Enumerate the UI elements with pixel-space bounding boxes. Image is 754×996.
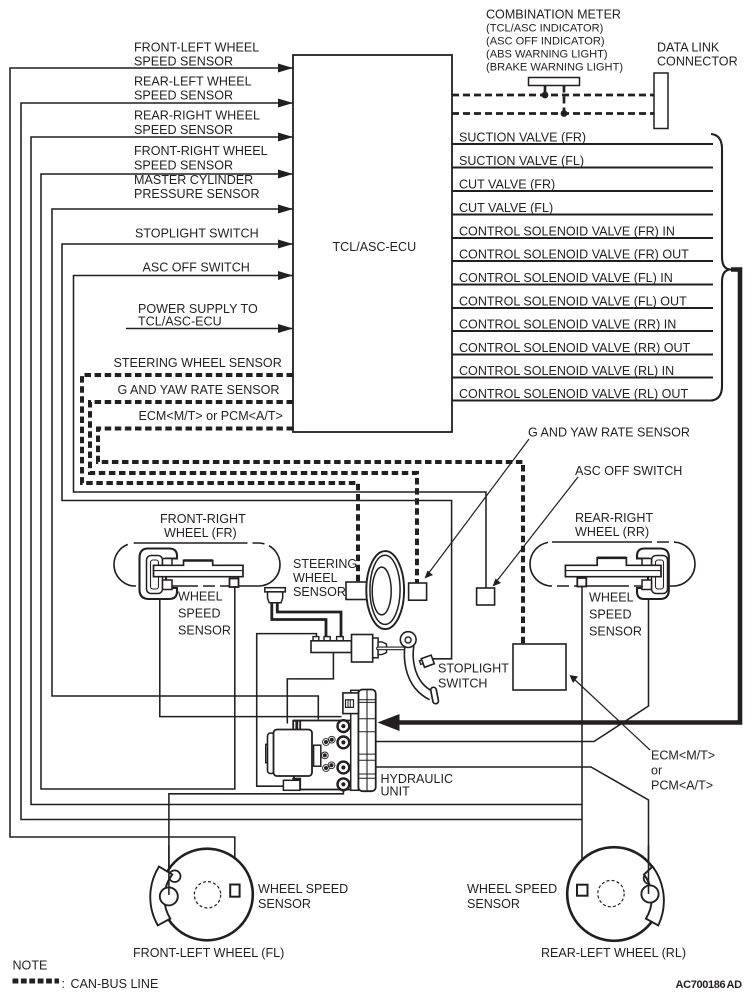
RL wheel group xyxy=(567,845,664,941)
RL wheel speed sensor connector xyxy=(577,885,588,896)
TCL/ASC-ECU box U1 xyxy=(293,55,452,432)
svg-text:WHEEL: WHEEL xyxy=(178,590,223,604)
svg-text:SWITCH: SWITCH xyxy=(438,677,487,691)
brake pedal pivot xyxy=(400,632,416,648)
svg-text:TCL/ASC-ECU: TCL/ASC-ECU xyxy=(333,240,417,254)
brake pedal pushrod xyxy=(378,647,409,651)
svg-text:(ABS WARNING LIGHT): (ABS WARNING LIGHT) xyxy=(486,49,608,61)
brake pipe hydraulic unit to RL wheel xyxy=(350,767,649,871)
svg-text:WHEEL SPEED: WHEEL SPEED xyxy=(467,882,557,896)
RL brake line overlay into caliper circle xyxy=(648,845,650,894)
hydraulic unit motor xyxy=(266,744,269,762)
RL caliper middle circle xyxy=(641,885,658,902)
brake pipe hydraulic unit to RR wheel xyxy=(350,599,649,742)
hydraulic unit valve plate xyxy=(314,745,321,766)
reservoir pipe A xyxy=(272,603,326,638)
CAN-BUS legend dash sample xyxy=(13,979,60,984)
svg-text:SENSOR: SENSOR xyxy=(178,624,231,638)
RR axle / sensor bar xyxy=(565,558,661,577)
svg-text:FRONT-LEFT WHEEL (FL): FRONT-LEFT WHEEL (FL) xyxy=(133,946,284,960)
svg-text:SPEED SENSOR: SPEED SENSOR xyxy=(134,89,233,103)
svg-text:FRONT-RIGHT WHEEL: FRONT-RIGHT WHEEL xyxy=(134,144,268,158)
arrowhead into ECU (rear-right) xyxy=(278,133,293,142)
wire rear wheel sensors shared vertical xyxy=(581,587,583,883)
svg-text:SENSOR: SENSOR xyxy=(467,897,520,911)
arrowhead into ECU (power supply) xyxy=(278,324,293,333)
hydraulic unit bottom-left bracket xyxy=(293,779,300,790)
FR caliper body xyxy=(140,549,178,600)
FL hub circle xyxy=(194,882,220,908)
svg-text:(ASC OFF INDICATOR): (ASC OFF INDICATOR) xyxy=(486,36,605,48)
thick line from brace down right side to hydraulic unit xyxy=(398,270,740,723)
valve output line 11 xyxy=(452,377,713,379)
svg-text:CONTROL SOLENOID VALVE (RR) IN: CONTROL SOLENOID VALVE (RR) IN xyxy=(459,318,676,332)
valve output line 6 xyxy=(452,260,713,262)
RR caliper body xyxy=(637,549,669,600)
arrowhead into ECU (ASC OFF) xyxy=(278,271,293,280)
hydraulic unit top connector bracket xyxy=(343,693,359,714)
valve output line 3 xyxy=(452,190,713,192)
thick arrowhead into hydraulic unit xyxy=(378,714,400,731)
arrowhead into ECU (front-right) xyxy=(278,170,293,179)
svg-text:CONTROL SOLENOID VALVE (FL) IN: CONTROL SOLENOID VALVE (FL) IN xyxy=(459,271,673,285)
svg-text:SENSOR: SENSOR xyxy=(589,625,642,639)
svg-text:SPEED SENSOR: SPEED SENSOR xyxy=(134,123,233,137)
CAN-bus line G and yaw rate sensor xyxy=(90,402,417,583)
FL caliper lower circle xyxy=(160,887,178,905)
hydraulic unit solenoid coils xyxy=(338,720,350,790)
ASC OFF switch box xyxy=(477,588,495,605)
svg-text:STOPLIGHT SWITCH: STOPLIGHT SWITCH xyxy=(135,227,259,241)
FL wheel group xyxy=(150,845,253,940)
wire power supply xyxy=(126,328,293,330)
RR wheel speed sensor connector xyxy=(577,578,586,587)
FL wheel disc xyxy=(161,849,253,941)
valve output line 4 xyxy=(452,214,713,216)
svg-text:CONTROL SOLENOID VALVE (FR) IN: CONTROL SOLENOID VALVE (FR) IN xyxy=(459,225,675,239)
brake pipe hydraulic unit to FL wheel xyxy=(169,786,344,870)
brace grouping valve outputs xyxy=(711,134,731,401)
FR axle / sensor bar xyxy=(154,561,244,577)
svg-text:CONTROL SOLENOID VALVE (RL) IN: CONTROL SOLENOID VALVE (RL) IN xyxy=(459,364,674,378)
RL caliper upper circle xyxy=(644,872,656,884)
svg-text:WHEEL SPEED: WHEEL SPEED xyxy=(258,882,348,896)
FL caliper upper circle xyxy=(169,870,181,882)
leader arrow to ECM/PCM box xyxy=(574,679,650,750)
svg-text:CONTROL SOLENOID VALVE (FL) OU: CONTROL SOLENOID VALVE (FL) OUT xyxy=(459,295,687,309)
CAN-bus line ECU to data link connector (lower) xyxy=(452,112,654,115)
svg-text:PRESSURE SENSOR: PRESSURE SENSOR xyxy=(134,187,260,201)
svg-text:or: or xyxy=(651,764,662,778)
svg-text:AC700186AD: AC700186AD xyxy=(676,979,743,991)
svg-text:UNIT: UNIT xyxy=(381,785,411,799)
brake pipe FR wheel to hydraulic unit xyxy=(160,599,342,717)
svg-text:REAR-RIGHT WHEEL: REAR-RIGHT WHEEL xyxy=(134,109,260,123)
svg-text:SENSOR: SENSOR xyxy=(293,585,346,599)
FL brake line overlay into caliper circle xyxy=(168,845,170,895)
svg-text:SPEED SENSOR: SPEED SENSOR xyxy=(134,158,233,172)
svg-text:ECM<M/T> or PCM<A/T>: ECM<M/T> or PCM<A/T> xyxy=(139,409,283,423)
brake booster xyxy=(352,635,373,663)
hydraulic unit top-left bracket xyxy=(293,721,300,732)
G and yaw rate sensor box xyxy=(409,583,427,600)
arrowhead into ECU (rear-left) xyxy=(278,99,293,108)
arrowhead into ECU (stoplight) xyxy=(278,240,293,249)
svg-text:WHEEL (FR): WHEEL (FR) xyxy=(164,526,237,540)
svg-text::: : xyxy=(62,977,66,991)
data link connector symbol xyxy=(654,73,668,129)
leader arrow to G and yaw rate sensor box xyxy=(428,439,529,574)
CAN-bus line ECU to combination meter and data link connector (upper) xyxy=(452,94,654,97)
hydraulic unit inner side plate xyxy=(351,690,359,790)
reservoir pipe B xyxy=(277,603,341,638)
hydraulic unit outer side plate xyxy=(358,690,375,792)
brake pipe master cylinder lower port to hydraulic unit top xyxy=(287,653,333,724)
svg-text:STEERING: STEERING xyxy=(293,557,357,571)
valve output line 5 xyxy=(452,237,713,239)
CAN-bus line steering wheel sensor xyxy=(82,375,358,583)
wire front-right wheel speed sensor xyxy=(41,174,293,789)
combination meter symbol xyxy=(529,78,580,86)
svg-text:SUCTION VALVE (FL): SUCTION VALVE (FL) xyxy=(459,154,584,168)
junction node on lower CAN line xyxy=(561,110,568,117)
CAN-bus drop combination meter 2 xyxy=(563,86,566,114)
brake pedal pad xyxy=(430,687,439,704)
FL wheel speed sensor connector xyxy=(230,885,239,897)
brake pipe master cylinder to hydraulic unit xyxy=(257,634,317,787)
svg-text:REAR-LEFT WHEEL (RL): REAR-LEFT WHEEL (RL) xyxy=(541,946,686,960)
CAN-bus drop combination meter 1 xyxy=(544,86,547,96)
hydraulic unit pump block xyxy=(294,721,351,790)
arrowhead into ECU (front-left) xyxy=(278,64,293,73)
svg-text:ASC OFF SWITCH: ASC OFF SWITCH xyxy=(575,464,682,478)
valve output line 1 xyxy=(452,143,713,145)
svg-text:TCL/ASC-ECU: TCL/ASC-ECU xyxy=(138,315,222,329)
valve output line 8 xyxy=(452,307,713,309)
svg-text:WHEEL: WHEEL xyxy=(293,571,338,585)
svg-text:(TCL/ASC INDICATOR): (TCL/ASC INDICATOR) xyxy=(486,23,603,35)
svg-text:G AND YAW RATE SENSOR: G AND YAW RATE SENSOR xyxy=(118,383,280,397)
leader arrow to ASC OFF switch box xyxy=(496,477,578,582)
svg-text:SPEED: SPEED xyxy=(178,607,221,621)
FL caliper crescent xyxy=(150,867,172,926)
wire front-left wheel speed sensor xyxy=(10,68,293,884)
valve output line 9 xyxy=(452,330,713,332)
CAN-bus line ECM/PCM xyxy=(98,429,523,645)
hydraulic unit lower-left foot xyxy=(283,780,300,790)
steering wheel (ellipses) xyxy=(366,551,404,629)
svg-text:CONTROL SOLENOID VALVE (RR) OU: CONTROL SOLENOID VALVE (RR) OUT xyxy=(459,341,691,355)
svg-text:CUT VALVE (FL): CUT VALVE (FL) xyxy=(459,201,553,215)
svg-text:REAR-LEFT WHEEL: REAR-LEFT WHEEL xyxy=(134,75,252,89)
svg-text:NOTE: NOTE xyxy=(13,958,48,972)
RL wheel disc xyxy=(567,847,661,941)
svg-text:STEERING WHEEL SENSOR: STEERING WHEEL SENSOR xyxy=(114,356,282,370)
valve output line 7 xyxy=(452,284,713,286)
svg-text:SUCTION VALVE (FR): SUCTION VALVE (FR) xyxy=(459,131,586,145)
svg-text:FRONT-LEFT WHEEL: FRONT-LEFT WHEEL xyxy=(134,41,259,55)
svg-text:CUT VALVE (FR): CUT VALVE (FR) xyxy=(459,178,555,192)
svg-text:CONTROL SOLENOID VALVE (RL) OU: CONTROL SOLENOID VALVE (RL) OUT xyxy=(459,387,688,401)
RL caliper crescent xyxy=(644,867,664,926)
master cylinder body xyxy=(311,635,387,663)
wire rear-right wheel speed sensor xyxy=(31,137,582,805)
valve output line 2 xyxy=(452,167,713,169)
FR tire capsule xyxy=(114,543,280,586)
valve output line 12 xyxy=(452,400,713,402)
RR caliper bracket xyxy=(652,556,668,594)
brake pedal arm xyxy=(409,645,432,696)
RR tire capsule xyxy=(530,542,695,586)
master cylinder reservoir cap xyxy=(265,588,286,603)
RR wheel group xyxy=(530,542,695,599)
svg-text:SPEED SENSOR: SPEED SENSOR xyxy=(134,55,233,69)
svg-text:CAN-BUS LINE: CAN-BUS LINE xyxy=(71,977,159,991)
stoplight switch body xyxy=(419,660,424,665)
hydraulic unit small bolts xyxy=(324,740,328,744)
steering wheel sensor box xyxy=(346,582,367,600)
FR caliper bracket xyxy=(147,556,163,594)
svg-text:SENSOR: SENSOR xyxy=(258,897,311,911)
svg-text:WHEEL: WHEEL xyxy=(589,591,634,605)
FR wheel group xyxy=(114,543,280,599)
svg-text:DATA LINK: DATA LINK xyxy=(657,41,720,55)
junction node on upper CAN line xyxy=(542,92,549,99)
svg-text:REAR-RIGHT: REAR-RIGHT xyxy=(575,511,653,525)
svg-text:SPEED: SPEED xyxy=(589,608,632,622)
svg-text:G AND YAW RATE SENSOR: G AND YAW RATE SENSOR xyxy=(528,426,690,440)
svg-text:STOPLIGHT: STOPLIGHT xyxy=(438,662,509,676)
svg-text:CONNECTOR: CONNECTOR xyxy=(657,55,738,69)
valve output line 10 xyxy=(452,354,713,356)
FR wheel speed sensor connector xyxy=(230,579,239,588)
svg-text:ECM<M/T>: ECM<M/T> xyxy=(651,749,715,763)
ECM/PCM box xyxy=(513,644,566,690)
svg-text:PCM<A/T>: PCM<A/T> xyxy=(651,779,713,793)
wire rear-left wheel speed sensor xyxy=(21,103,582,820)
svg-text:WHEEL (RR): WHEEL (RR) xyxy=(575,525,649,539)
wire stoplight switch xyxy=(62,244,452,659)
hydraulic unit group xyxy=(266,690,376,792)
wire ASC OFF switch xyxy=(74,276,487,589)
RL hub circle xyxy=(598,880,624,906)
svg-text:FRONT-RIGHT: FRONT-RIGHT xyxy=(160,512,246,526)
svg-text:COMBINATION METER: COMBINATION METER xyxy=(486,8,621,22)
svg-text:(BRAKE WARNING LIGHT): (BRAKE WARNING LIGHT) xyxy=(486,62,623,74)
svg-text:MASTER CYLINDER: MASTER CYLINDER xyxy=(134,173,253,187)
wire master cylinder pressure sensor xyxy=(52,209,318,719)
svg-text:ASC OFF SWITCH: ASC OFF SWITCH xyxy=(143,261,250,275)
svg-text:CONTROL SOLENOID VALVE (FR) OU: CONTROL SOLENOID VALVE (FR) OUT xyxy=(459,248,689,262)
arrowhead into ECU (master cylinder pressure) xyxy=(278,205,293,214)
